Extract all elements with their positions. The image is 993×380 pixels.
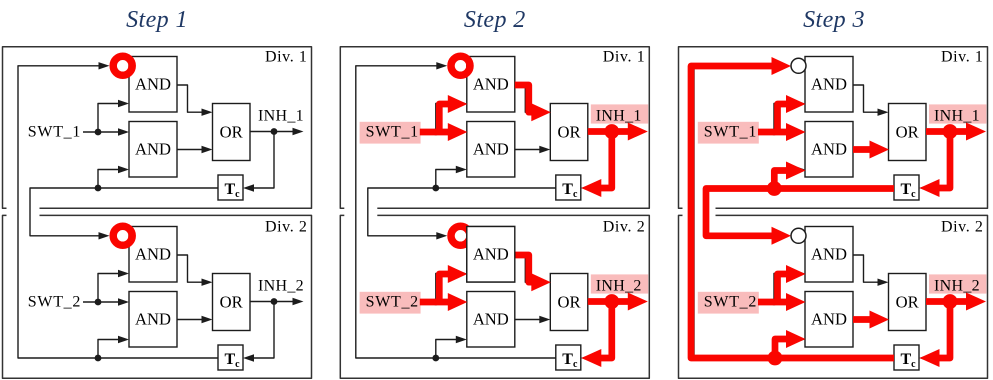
svg-text:AND: AND xyxy=(135,310,171,329)
svg-text:INH_1: INH_1 xyxy=(934,107,980,124)
red node feedback junction Div2 xyxy=(768,351,783,366)
inhibit marker ring Div1 (active) xyxy=(451,56,470,75)
wire SWT_2 branch to AND A2a input 2 xyxy=(436,274,457,303)
svg-text:AND: AND xyxy=(473,75,509,94)
wire AND A1a output to OR O1 input 1 xyxy=(515,85,540,112)
red node feedback junction Div1 xyxy=(767,181,782,196)
svg-text:INH_2: INH_2 xyxy=(934,277,980,294)
node feedback junction Div1 xyxy=(432,185,439,192)
red node INH_1 junction xyxy=(943,124,958,139)
timer T_c block division 1 xyxy=(894,175,919,200)
svg-text:AND: AND xyxy=(135,140,171,159)
inhibit marker circle Div1 (cleared) xyxy=(791,58,806,73)
highlight SWT_1 label background xyxy=(698,122,759,144)
svg-text:AND: AND xyxy=(811,75,847,94)
red wire feedback branch to AND A1b xyxy=(774,171,786,189)
svg-text:OR: OR xyxy=(220,123,244,142)
svg-text:Div. 1: Div. 1 xyxy=(603,49,646,66)
red active wire AND A2a output to OR O2 xyxy=(515,255,533,282)
wire AND A1a output to OR O1 input 1 xyxy=(853,85,878,112)
wire SWT_1 branch to AND A1a input 2 xyxy=(98,104,119,133)
node SWT_2 branch junction xyxy=(432,299,439,306)
wire feedback Div1 T_c output to Div2 inhibit input xyxy=(706,188,894,236)
wire feedback Div1 T_c output to Div2 inhibit input xyxy=(30,188,218,236)
wire AND A2b output to OR O2 input 2 xyxy=(853,319,878,321)
highlight INH_2 label background xyxy=(929,274,986,293)
svg-text:INH_2: INH_2 xyxy=(258,277,304,294)
node feedback junction Div2 xyxy=(432,355,439,362)
wire feedback Div1 T_c output to Div2 inhibit input xyxy=(368,188,556,236)
red active wire AND A1b output to OR O1 xyxy=(853,146,870,153)
OR gate O2 xyxy=(550,274,588,331)
wire SWT_2 branch to AND A2a input 2 xyxy=(774,274,795,303)
wire feedback Div2 T_c output to Div1 inhibit input xyxy=(694,66,894,358)
division 1 boundary box xyxy=(679,47,988,209)
wire AND A2b output to OR O2 input 2 xyxy=(515,319,540,321)
svg-text:Step 1: Step 1 xyxy=(126,7,188,33)
wire SWT_1 to AND A1b input 1 xyxy=(759,131,795,133)
wire INH_1 junction down to timer T_c input xyxy=(591,132,612,189)
inhibit marker circle Div2 (cleared) xyxy=(791,228,806,243)
OR gate O1 xyxy=(213,104,251,161)
inhibit marker ring Div1 (active) xyxy=(113,56,132,75)
wire AND A1a output to OR O1 input 1 xyxy=(177,85,202,112)
timer T_c block division 1 xyxy=(218,175,243,200)
wire feedback branch to AND A2b input 3 xyxy=(98,340,119,359)
AND gate A1b (lower) xyxy=(467,122,515,178)
division 1 boundary box xyxy=(340,47,649,209)
svg-text:AND: AND xyxy=(811,245,847,264)
division 1 boundary box xyxy=(3,47,312,209)
AND gate A1a (upper) xyxy=(467,57,515,113)
node SWT_2 branch junction xyxy=(771,299,778,306)
svg-text:Step 3: Step 3 xyxy=(803,7,865,33)
svg-text:Div. 2: Div. 2 xyxy=(265,219,308,236)
inhibit marker ring Div2 (active) xyxy=(113,226,132,245)
wire AND A1b output to OR O1 input 2 xyxy=(177,149,202,151)
wire OR O1 output to INH_1 xyxy=(588,131,631,133)
wire OR O1 output to INH_1 xyxy=(926,131,969,133)
wire OR O2 output to INH_2 xyxy=(588,301,631,303)
red feedback wire Div1 T_c to Div2 inhibit input xyxy=(706,189,894,236)
timer T_c block division 1 xyxy=(556,175,581,200)
wire AND A2b output to OR O2 input 2 xyxy=(177,319,202,321)
AND gate A1a (upper) xyxy=(805,57,853,113)
red active wire INH_1 down to timer T_c xyxy=(600,132,612,189)
wire SWT_2 to AND A2b input 1 xyxy=(421,301,457,303)
node SWT_1 branch junction xyxy=(95,129,102,136)
wire SWT_2 branch to AND A2a input 2 xyxy=(98,274,119,303)
AND gate A2b (lower) xyxy=(467,292,515,348)
wire feedback branch to AND A1b input 3 xyxy=(774,170,795,189)
node feedback junction Div1 xyxy=(95,185,102,192)
OR gate O2 xyxy=(213,274,251,331)
red active wire SWT_2 into AND gates xyxy=(758,299,787,306)
wire INH_1 junction down to timer T_c input xyxy=(254,132,275,189)
svg-text:AND: AND xyxy=(473,140,509,159)
wire INH_1 junction down to timer T_c input xyxy=(930,132,951,189)
wire feedback Div2 T_c output to Div1 inhibit input xyxy=(356,66,556,358)
red active wire OR O1 output to INH_1 xyxy=(588,128,630,135)
node INH_1 output junction xyxy=(608,128,615,135)
highlight INH_1 label background xyxy=(929,104,986,123)
wire feedback branch to AND A2b input 3 xyxy=(774,340,795,359)
OR gate O1 xyxy=(889,104,927,161)
AND gate A2a (upper) xyxy=(467,227,515,283)
svg-text:INH_2: INH_2 xyxy=(596,277,642,294)
OR gate O2 xyxy=(889,274,927,331)
red active wire SWT_1 into AND gates xyxy=(420,129,449,136)
inhibit marker ring Div2 (active) xyxy=(451,226,470,245)
red wire feedback branch to AND A2b xyxy=(775,339,786,358)
AND gate A1b (lower) xyxy=(129,122,177,178)
node SWT_1 branch junction xyxy=(432,129,439,136)
red node INH_2 junction xyxy=(604,294,619,309)
node INH_2 output junction xyxy=(271,298,278,305)
svg-text:SWT_2: SWT_2 xyxy=(28,294,81,311)
AND gate A1a (upper) xyxy=(129,57,177,113)
wire INH_2 junction down to timer T_c input xyxy=(254,302,275,359)
wire feedback branch to AND A2b input 3 xyxy=(436,340,457,359)
AND gate A2b (lower) xyxy=(129,292,177,348)
AND gate A2a box redrawn over marker xyxy=(467,227,515,283)
svg-text:SWT_2: SWT_2 xyxy=(704,294,757,311)
red active wire OR O1 output to INH_1 xyxy=(926,128,968,135)
wire SWT_1 branch to AND A1a input 2 xyxy=(436,104,457,133)
division 2 boundary box xyxy=(679,215,988,378)
node INH_2 output junction xyxy=(947,298,954,305)
svg-text:Div. 2: Div. 2 xyxy=(603,219,646,236)
wire SWT_1 branch to AND A1a input 2 xyxy=(774,104,795,133)
svg-text:INH_1: INH_1 xyxy=(258,107,304,124)
red active wire OR O2 output to INH_2 xyxy=(926,298,968,305)
red active wire SWT_2 into AND gates xyxy=(420,299,449,306)
highlight SWT_2 label background xyxy=(698,292,759,314)
AND gate A1b (lower) xyxy=(805,122,853,178)
node SWT_1 branch junction xyxy=(771,129,778,136)
svg-text:Div. 1: Div. 1 xyxy=(941,49,984,66)
svg-text:AND: AND xyxy=(135,75,171,94)
node INH_2 output junction xyxy=(608,298,615,305)
wire SWT_2 to AND A2b input 1 xyxy=(83,301,119,303)
wire SWT_1 to AND A1b input 1 xyxy=(421,131,457,133)
highlight SWT_1 label background xyxy=(360,122,421,144)
svg-text:OR: OR xyxy=(557,123,581,142)
wire AND A2a output to OR O2 input 1 xyxy=(853,255,878,282)
red active wire AND A2b output to OR O2 xyxy=(853,316,870,323)
svg-text:Step 2: Step 2 xyxy=(464,7,526,33)
node feedback junction Div2 xyxy=(95,355,102,362)
division 2 boundary box xyxy=(340,215,649,378)
wire OR O1 output to INH_1 xyxy=(250,131,293,133)
svg-text:OR: OR xyxy=(557,293,581,312)
node feedback junction Div1 xyxy=(771,185,778,192)
wire SWT_1 to AND A1b input 1 xyxy=(83,131,119,133)
wire INH_2 junction down to timer T_c input xyxy=(930,302,951,359)
svg-text:Div. 2: Div. 2 xyxy=(941,219,984,236)
svg-text:AND: AND xyxy=(811,140,847,159)
red active wire SWT_1 into AND gates xyxy=(758,129,787,136)
wire feedback branch to AND A1b input 3 xyxy=(98,170,119,189)
svg-text:OR: OR xyxy=(220,293,244,312)
wire OR O2 output to INH_2 xyxy=(250,301,293,303)
wire SWT_2 to AND A2b input 1 xyxy=(759,301,795,303)
highlight INH_1 label background xyxy=(591,104,648,123)
svg-text:OR: OR xyxy=(896,123,920,142)
svg-text:INH_1: INH_1 xyxy=(596,107,642,124)
AND gate A2a (upper) xyxy=(805,227,853,283)
red active wire INH_1 down to timer T_c xyxy=(938,132,950,189)
node SWT_2 branch junction xyxy=(95,299,102,306)
red feedback wire Div2 T_c to Div1 inhibit input xyxy=(691,66,894,358)
svg-text:AND: AND xyxy=(811,310,847,329)
svg-text:OR: OR xyxy=(896,293,920,312)
AND gate A2b (lower) xyxy=(805,292,853,348)
svg-text:Div. 1: Div. 1 xyxy=(265,49,308,66)
red active wire INH_2 down to timer T_c xyxy=(938,302,950,359)
wire AND A2a output to OR O2 input 1 xyxy=(515,255,540,282)
timer T_c block division 2 xyxy=(556,345,581,370)
AND gate A2a (upper) xyxy=(129,227,177,283)
svg-text:AND: AND xyxy=(135,245,171,264)
timer T_c block division 2 xyxy=(894,345,919,370)
red active wire AND A1a output to OR O1 xyxy=(515,85,533,112)
svg-text:AND: AND xyxy=(473,245,509,264)
svg-text:AND: AND xyxy=(473,310,509,329)
wire INH_2 junction down to timer T_c input xyxy=(591,302,612,359)
highlight SWT_2 label background xyxy=(360,292,421,314)
node INH_1 output junction xyxy=(271,128,278,135)
wire OR O2 output to INH_2 xyxy=(926,301,969,303)
wire AND A1b output to OR O1 input 2 xyxy=(515,149,540,151)
highlight INH_2 label background xyxy=(591,274,648,293)
OR gate O1 xyxy=(550,104,588,161)
timer T_c block division 2 xyxy=(218,345,243,370)
division 2 boundary box xyxy=(3,215,312,378)
svg-text:SWT_1: SWT_1 xyxy=(28,124,81,141)
node INH_1 output junction xyxy=(947,128,954,135)
svg-text:SWT_1: SWT_1 xyxy=(366,124,419,141)
wire AND A2a output to OR O2 input 1 xyxy=(177,255,202,282)
red active wire OR O2 output to INH_2 xyxy=(588,298,630,305)
wire feedback Div2 T_c output to Div1 inhibit input xyxy=(18,66,218,358)
svg-text:SWT_2: SWT_2 xyxy=(366,294,419,311)
node feedback junction Div2 xyxy=(771,355,778,362)
red node INH_1 junction xyxy=(604,124,619,139)
red node INH_2 junction xyxy=(943,294,958,309)
wire AND A1b output to OR O1 input 2 xyxy=(853,149,878,151)
svg-text:SWT_1: SWT_1 xyxy=(704,124,757,141)
red active wire INH_2 down to timer T_c xyxy=(600,302,612,359)
wire feedback branch to AND A1b input 3 xyxy=(436,170,457,189)
